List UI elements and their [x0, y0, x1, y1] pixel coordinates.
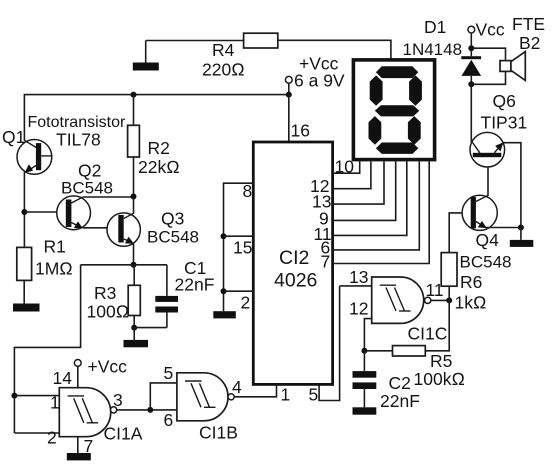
svg-text:D1: D1	[424, 17, 446, 37]
svg-text:22nF: 22nF	[380, 391, 420, 411]
wire R1 bottom	[23, 280, 25, 303]
IC CI2 4026	[253, 142, 332, 384]
svg-text:6: 6	[164, 410, 174, 430]
svg-text:Fototransistor: Fototransistor	[28, 114, 126, 131]
display segment e	[369, 116, 382, 145]
svg-text:1: 1	[281, 385, 291, 405]
svg-text:+Vcc: +Vcc	[88, 357, 128, 377]
speaker B2	[500, 52, 525, 81]
transistor Q2 BC548	[57, 196, 91, 230]
junction R3 bottom / C1 bottom	[131, 325, 137, 331]
svg-text:14: 14	[53, 368, 73, 388]
wire CI1B output to CI2 pin 1	[234, 384, 276, 396]
svg-text:100kΩ: 100kΩ	[414, 369, 465, 389]
capacitor C2	[353, 351, 377, 408]
display segment g	[375, 105, 420, 116]
svg-text:15: 15	[233, 238, 252, 258]
svg-text:BC548: BC548	[147, 228, 199, 247]
junction R6 bottom	[446, 297, 452, 303]
wire CI1A input 1	[14, 395, 59, 397]
svg-text:Vcc: Vcc	[476, 20, 505, 40]
wire CI2 pin 10 to display	[333, 162, 360, 174]
junction CI1A input 1 tap	[11, 393, 17, 399]
wire R3-C1 bottom	[134, 327, 167, 329]
display segment b	[409, 75, 422, 105]
node +Vcc terminal (CI1A pin 14)	[74, 360, 81, 367]
junction diode bottom / speaker bottom	[468, 81, 474, 87]
junction Q2 base on Q1 emitter line	[21, 209, 27, 215]
svg-text:CI1C: CI1C	[408, 324, 448, 344]
wire CI2 pin 8 / 15 / 2 left rail	[224, 183, 254, 311]
svg-text:13: 13	[349, 267, 368, 287]
svg-text:BC548: BC548	[460, 253, 512, 272]
svg-text:16: 16	[291, 121, 310, 141]
svg-text:220Ω: 220Ω	[202, 60, 245, 80]
wire node to CI1A inputs	[14, 265, 80, 433]
ground (CI1A pin 7)	[67, 453, 91, 460]
display segment a	[376, 66, 418, 78]
node +Vcc terminal	[285, 76, 292, 83]
wire CI2 pin 12 to display	[333, 162, 371, 189]
gate CI1A (NAND Schmitt)	[59, 388, 116, 437]
svg-text:R1: R1	[44, 237, 66, 257]
display segment d	[376, 143, 418, 154]
svg-text:CI1B: CI1B	[199, 423, 238, 443]
svg-text:3: 3	[113, 390, 123, 410]
wire pin 2	[224, 290, 254, 292]
svg-text:B2: B2	[519, 33, 540, 53]
svg-text:5: 5	[309, 385, 319, 405]
wire CI1C output to R6 junction	[431, 299, 449, 301]
transistor Q6 TIP31	[470, 132, 505, 167]
junction diode top / speaker top	[468, 45, 474, 51]
wire pin16 drop	[288, 95, 290, 142]
svg-text:R2: R2	[148, 138, 170, 158]
ground (R4 left)	[133, 41, 159, 71]
svg-text:R6: R6	[460, 272, 482, 292]
svg-text:6 a 9V: 6 a 9V	[294, 71, 345, 91]
ground (CI2 pins 8/15/2)	[213, 311, 236, 318]
svg-text:22nF: 22nF	[175, 275, 215, 295]
wire speaker bottom branch	[471, 71, 505, 84]
gate CI1B (NAND Schmitt)	[177, 373, 234, 421]
resistor R5	[393, 346, 426, 356]
svg-text:Q4: Q4	[476, 230, 500, 250]
resistor R1	[17, 247, 32, 280]
wire CI1A input 2	[14, 432, 59, 434]
svg-text:100Ω: 100Ω	[87, 302, 130, 322]
wire CI1B input 5	[150, 383, 177, 410]
wire CI2 pin 13 to display	[333, 162, 384, 205]
svg-text:TIL78: TIL78	[56, 130, 101, 150]
wire pin 15	[224, 235, 254, 237]
diode D1 1N4148	[461, 56, 481, 84]
transistor Q3 BC548	[107, 197, 140, 265]
wire CI1C input 12	[364, 319, 371, 351]
svg-text:1N4148: 1N4148	[403, 40, 463, 59]
svg-text:BC548: BC548	[61, 179, 113, 198]
svg-text:22kΩ: 22kΩ	[138, 157, 180, 177]
junction C2 / R5	[361, 348, 367, 354]
svg-text:2: 2	[47, 428, 57, 448]
wire CI1A pin 7	[77, 437, 79, 453]
svg-text:TIP31: TIP31	[481, 113, 528, 133]
junction R2 top	[131, 92, 137, 98]
svg-text:R3: R3	[94, 283, 116, 303]
svg-text:R4: R4	[212, 40, 235, 60]
wire CI2 pin 6 to display	[333, 162, 420, 250]
svg-text:Q6: Q6	[493, 91, 516, 111]
wire junction to R5	[364, 350, 392, 352]
svg-text:1: 1	[50, 393, 60, 413]
display segment c	[408, 116, 421, 145]
svg-text:5: 5	[164, 363, 174, 383]
junction pin 2	[221, 288, 227, 294]
wire Q4 collector to Q6 base	[487, 157, 489, 195]
svg-text:Q2: Q2	[78, 161, 101, 181]
junction CI1B input 5 tap	[147, 407, 153, 413]
wire Q3 emitter node horizontal	[81, 264, 167, 266]
svg-text:1kΩ: 1kΩ	[455, 293, 487, 313]
capacitor C1	[155, 265, 178, 328]
svg-text:4026: 4026	[274, 270, 317, 292]
ground (R1)	[13, 304, 40, 312]
junction emitter ground	[518, 225, 524, 231]
svg-text:12: 12	[349, 299, 368, 319]
junction Vcc rail	[286, 92, 292, 98]
wire top-left collector rail from Q1 to +Vcc junction	[24, 95, 288, 141]
svg-text:10: 10	[335, 157, 355, 177]
wire CI2 pin 5 to CI1C input 13	[319, 286, 340, 401]
svg-text:8: 8	[243, 181, 253, 201]
wire Q6 emitter to right rail / ground	[503, 143, 521, 228]
wire Q2 emitter to Q3 base	[83, 227, 119, 229]
wire R6 top to Q4 base	[449, 213, 471, 253]
wire R4 right to display top	[278, 40, 391, 58]
node Vcc terminal (top right)	[468, 26, 475, 33]
svg-text:1MΩ: 1MΩ	[35, 259, 73, 279]
display segment f	[370, 75, 383, 105]
wire diode bottom to Q6 collector	[470, 84, 472, 142]
svg-text:2: 2	[241, 293, 251, 313]
wire CI1A output to CI1B inputs	[117, 409, 177, 411]
7-segment display box	[353, 60, 434, 160]
resistor R6	[441, 253, 457, 287]
wire CI2 pin 7 to display	[333, 162, 430, 264]
svg-text:CI1A: CI1A	[104, 424, 143, 444]
wire Q2 base	[24, 211, 65, 213]
svg-text:4: 4	[232, 377, 242, 397]
svg-text:Q1: Q1	[2, 127, 25, 147]
transistor Q4 BC548	[462, 195, 497, 230]
gate CI1C (NAND Schmitt)	[372, 277, 431, 323]
ground (C2)	[353, 407, 377, 414]
wire CI2 pin 11 to display	[333, 162, 407, 236]
junction Q3 emitter node	[131, 262, 137, 268]
wire R5 right to R6 junction	[425, 300, 449, 350]
ground (Q6/Q4 emitters)	[510, 228, 534, 247]
transistor Q1 (phototransistor)	[17, 140, 52, 248]
resistor R2	[128, 125, 140, 157]
wire Q2 collector to R2 bottom junction	[83, 196, 134, 198]
wire R4 left	[146, 40, 244, 42]
ground (R3/C1)	[124, 328, 149, 348]
junction R2 bottom / Q2 collector	[131, 194, 137, 200]
wire Vcc to diode top junction	[470, 33, 472, 56]
svg-text:Q3: Q3	[161, 209, 184, 229]
wire CI1C input 13	[340, 285, 372, 287]
svg-text:CI2: CI2	[279, 247, 309, 269]
svg-text:7: 7	[321, 252, 331, 272]
resistor R3	[128, 285, 140, 315]
wire CI2 pin 9 to display	[333, 162, 396, 221]
wire Q4 emitter to ground junction	[486, 227, 521, 229]
resistor R4	[244, 33, 278, 48]
junction pin 15	[221, 233, 227, 239]
wire speaker top branch	[471, 48, 505, 60]
svg-text:FTE: FTE	[512, 14, 545, 34]
svg-text:C2: C2	[389, 373, 411, 393]
svg-text:R5: R5	[430, 351, 452, 371]
